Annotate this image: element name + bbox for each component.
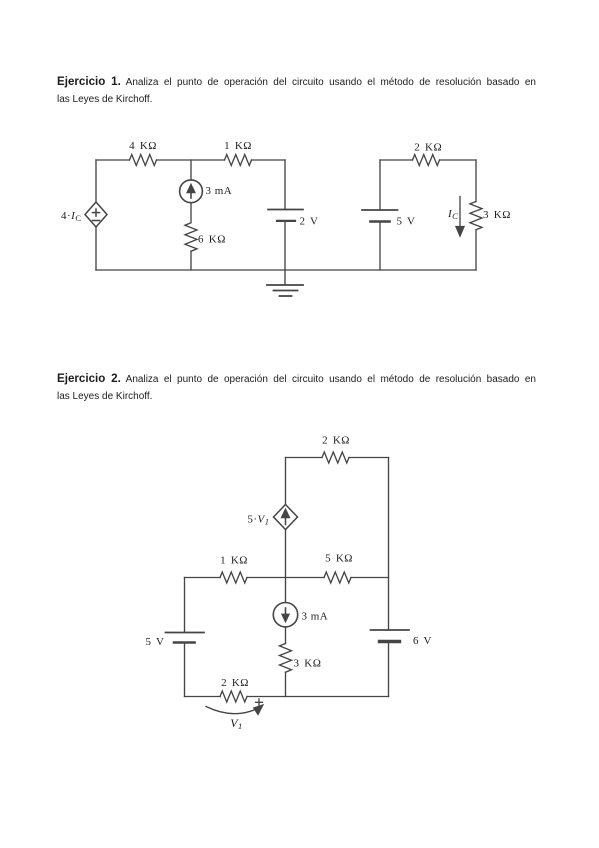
battery V3 5V — [166, 633, 205, 643]
svg-text:5 KΩ: 5 KΩ — [325, 553, 353, 565]
exercise 2 heading paragraph — [57, 369, 536, 406]
ground — [267, 270, 303, 296]
wire c2 middle left segment — [185, 577, 221, 579]
wire c2 center col circle to 3K — [285, 627, 287, 644]
current annotation Ic arrow — [456, 197, 464, 237]
battery V2 5V — [362, 210, 398, 222]
wire c1 top middle segment — [157, 159, 225, 161]
battery V4 6V — [371, 630, 410, 642]
wire c2 left col lower — [184, 643, 186, 697]
wire c1 center branch lower — [190, 251, 192, 270]
resistor R 1KΩ — [225, 155, 252, 166]
wire c1 left vertical upper — [95, 160, 97, 202]
dependent source U2 5·V1 diamond — [274, 505, 298, 530]
resistor R 2KΩ — [413, 155, 440, 166]
svg-text:1 KΩ: 1 KΩ — [220, 555, 248, 567]
svg-text:5 V: 5 V — [146, 636, 165, 648]
svg-text:5·V1: 5·V1 — [247, 514, 269, 527]
wire c1 left vertical lower — [95, 227, 97, 270]
wire c1 top right segment — [252, 159, 286, 161]
svg-text:4·IC: 4·IC — [61, 210, 82, 223]
wire c1 center branch upper — [190, 160, 192, 180]
svg-text:5 V: 5 V — [397, 215, 416, 227]
voltage annotation V1 arc arrow — [206, 699, 263, 715]
wire c1b left vertical lower — [379, 222, 381, 271]
svg-text:V1: V1 — [230, 716, 243, 731]
wire c1b top right segment — [440, 159, 477, 161]
svg-text:3 mA: 3 mA — [302, 611, 329, 623]
wire c1 center branch mid — [190, 203, 192, 222]
wire c2 left col upper — [184, 578, 186, 633]
wire c2 right col upper — [388, 458, 390, 631]
resistor R 2KΩ top — [322, 452, 349, 463]
wire c2 right col lower — [388, 642, 390, 697]
battery V1 2V — [268, 210, 303, 221]
wire c2 top right segment — [349, 457, 389, 459]
wire c1 bottom — [96, 269, 476, 271]
resistor R 4KΩ — [130, 155, 157, 166]
wire c2 center col above diamond — [285, 458, 287, 505]
wire c2 center col lower — [285, 672, 287, 696]
resistor R 3KΩ — [470, 202, 482, 230]
wire c1 2V branch lower — [284, 221, 286, 270]
wire c2 middle center segment — [247, 577, 324, 579]
wire c2 center col diamond to junction — [285, 530, 287, 603]
current source I2 3mA circle — [273, 603, 297, 627]
resistor R 3KΩ c2 — [280, 644, 292, 673]
wire c2 bottom right segment — [247, 696, 389, 698]
wire c1 top-left segment — [96, 159, 130, 161]
dependent source U1 4·Ic diamond — [85, 202, 107, 227]
svg-text:6 KΩ: 6 KΩ — [198, 233, 226, 245]
resistor R 6KΩ — [185, 223, 197, 251]
svg-text:2 KΩ: 2 KΩ — [322, 435, 350, 447]
svg-text:IC: IC — [447, 208, 458, 221]
exercise 1 heading paragraph — [57, 72, 536, 109]
resistor R 5KΩ — [324, 572, 351, 583]
resistor R 1KΩ c2 — [220, 572, 247, 583]
svg-text:3 mA: 3 mA — [206, 185, 233, 197]
current source I1 3mA circle — [180, 180, 203, 203]
svg-text:2 KΩ: 2 KΩ — [221, 677, 249, 689]
svg-text:6 V: 6 V — [413, 635, 432, 647]
wire c1b left vertical upper — [379, 160, 381, 210]
svg-text:4 KΩ: 4 KΩ — [129, 140, 157, 152]
svg-text:3 KΩ: 3 KΩ — [294, 657, 322, 669]
wire c1b right vertical upper — [475, 160, 477, 202]
svg-text:2 KΩ: 2 KΩ — [414, 142, 442, 154]
wire c2 top left segment — [286, 457, 323, 459]
wire c2 bottom left segment — [185, 696, 221, 698]
svg-text:1 KΩ: 1 KΩ — [224, 140, 252, 152]
wire c1b right vertical lower — [475, 230, 477, 270]
resistor R 2KΩ bottom — [220, 691, 247, 702]
wire c2 middle right segment — [351, 577, 389, 579]
svg-text:2 V: 2 V — [300, 216, 319, 228]
wire c1b top left segment — [380, 159, 413, 161]
wire c1 2V branch upper — [284, 160, 286, 210]
svg-text:3 KΩ: 3 KΩ — [483, 209, 511, 221]
